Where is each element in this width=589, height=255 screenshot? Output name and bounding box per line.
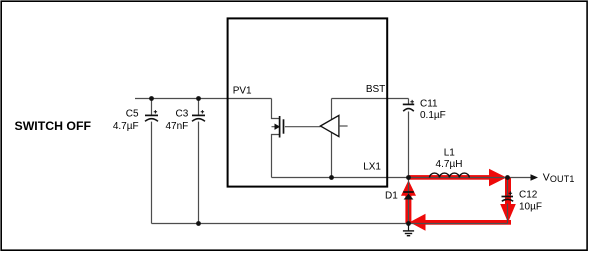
wire: driver supply rail BST-LX1	[331, 99, 333, 178]
wire: D1 leads	[408, 178, 410, 224]
svg-text:0.1µF: 0.1µF	[420, 110, 446, 121]
svg-text:4.7µH: 4.7µH	[436, 159, 463, 170]
wire: C3 leads	[198, 99, 200, 224]
wire: gate wire from driver	[285, 126, 321, 128]
red current-path arrow: LX1 to output (top segment, arrow right)	[408, 169, 507, 186]
wire: C12 leads	[507, 178, 509, 224]
svg-text:4.7µF: 4.7µF	[113, 121, 139, 132]
label C3 value	[166, 109, 189, 132]
red current-path arrow: down through C12 (right segment, arrow down)	[500, 177, 516, 223]
node: driver rail to LX1	[329, 175, 334, 180]
svg-text:C11: C11	[420, 99, 438, 110]
capacitor C5	[145, 110, 158, 121]
svg-text:LX1: LX1	[363, 161, 381, 172]
svg-text:C3: C3	[176, 109, 189, 120]
svg-text:C5: C5	[126, 109, 139, 120]
ground	[403, 224, 414, 236]
svg-text:10µF: 10µF	[519, 202, 542, 213]
node: C3 to input rail	[196, 96, 201, 101]
capacitor C11	[403, 100, 414, 111]
svg-text:47nF: 47nF	[166, 121, 189, 132]
svg-text:VOUT1: VOUT1	[543, 172, 575, 185]
wire: output wire to VOUT1	[508, 177, 532, 179]
node: D1/C11 to LX1	[406, 175, 411, 180]
IC box	[228, 18, 388, 186]
wire: ground rail (bottom)	[152, 223, 508, 225]
red current-path arrow: up through D1 (left segment, arrow up)	[401, 180, 416, 224]
red current-path arrow: ground return (bottom segment, arrow left)	[410, 214, 512, 231]
label C11 value	[420, 99, 446, 122]
wire: PV1 drop to MOSFET drain	[272, 99, 280, 119]
svg-text:PV1: PV1	[233, 86, 252, 97]
node: C5 to input rail	[149, 96, 154, 101]
capacitor C3	[192, 110, 205, 121]
wire: C5 leads	[151, 99, 153, 224]
node: C3 to ground rail	[196, 221, 201, 226]
transistor Q1 (internal MOSFET)	[275, 116, 284, 138]
inductor L1	[430, 173, 470, 177]
node: output junction	[505, 175, 510, 180]
svg-text:D1: D1	[385, 190, 398, 201]
label C5 value	[113, 109, 139, 132]
node: D1 anode / ground	[406, 221, 411, 226]
label C12 value	[519, 189, 542, 212]
wire: C11 leads	[408, 99, 410, 178]
op-amp U1 (gate driver buffer)	[320, 115, 347, 136]
wire: LX1 rail to output node	[272, 177, 508, 179]
wire: MOSFET source/body to LX1	[272, 127, 280, 178]
wire: BST rail to C11	[332, 98, 409, 100]
diode D1	[403, 192, 414, 200]
svg-text:SWITCH OFF: SWITCH OFF	[15, 119, 92, 133]
arrowhead to VOUT1	[531, 174, 539, 180]
svg-text:BST: BST	[366, 84, 385, 95]
capacitor C12	[502, 191, 514, 201]
svg-text:C12: C12	[519, 189, 538, 200]
wire: input rail PV1	[135, 98, 272, 100]
svg-text:L1: L1	[444, 148, 456, 159]
label L1 value	[436, 148, 463, 170]
